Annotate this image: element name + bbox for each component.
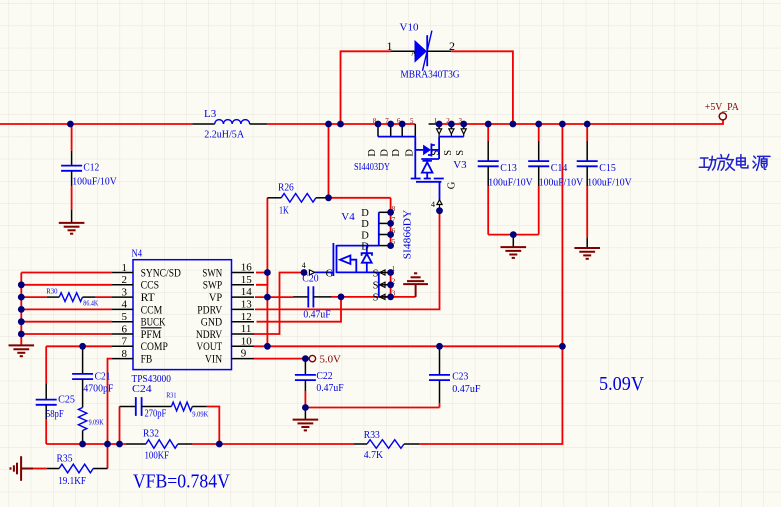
svg-text:C13: C13	[500, 162, 517, 174]
wire: FB pin8 row	[108, 359, 113, 444]
wire: R26 node to V4 drain bus	[329, 197, 391, 199]
capacitor C15 100uF/10V	[577, 124, 632, 188]
svg-text:VIN: VIN	[205, 354, 223, 366]
svg-text:S: S	[455, 150, 466, 156]
wire: C22/C23 ground tie	[305, 403, 439, 407]
svg-text:S: S	[373, 281, 379, 292]
svg-text:12: 12	[241, 311, 252, 323]
resistor 9.09K (below C21)	[78, 408, 103, 445]
svg-text:9.09K: 9.09K	[89, 419, 104, 427]
svg-text:2: 2	[449, 39, 455, 53]
svg-text:D: D	[361, 230, 369, 241]
wire: V4 drain bus (red)	[390, 198, 392, 246]
wire: C13/C14 ground tie	[488, 234, 539, 236]
wire: C13 lower lead wire	[487, 186, 489, 234]
capacitor C13 100uF/10V	[478, 124, 533, 188]
junction dot C22 ground node	[302, 404, 309, 411]
svg-text:G: G	[447, 181, 458, 189]
wire: PDRV pin13 to V3 gate	[255, 211, 440, 310]
diode V10 MBRA340T3G	[387, 22, 460, 81]
svg-text:G: G	[326, 268, 334, 279]
wire: SWN pin16 to vertical	[256, 272, 267, 274]
svg-text:V3: V3	[453, 159, 467, 171]
svg-text:V10: V10	[400, 22, 419, 34]
svg-text:NDRV: NDRV	[196, 329, 223, 341]
wire: compensation bottom rail	[46, 419, 126, 444]
junction dot COMP/C21	[79, 343, 86, 350]
svg-text:0.47uF: 0.47uF	[303, 309, 330, 321]
svg-text:4: 4	[122, 299, 128, 311]
wire: SWP pin15 jog	[256, 273, 267, 285]
svg-text:S: S	[373, 293, 379, 304]
svg-text:4: 4	[302, 261, 306, 270]
svg-text:SWP: SWP	[203, 280, 223, 292]
label: 5.09V	[599, 373, 644, 395]
ground (below C15)	[574, 238, 600, 259]
resistor R32 100KF	[126, 427, 193, 461]
ground (below C13/C14)	[501, 231, 527, 258]
svg-text:8: 8	[122, 348, 128, 360]
wire: R35 to FB node	[33, 444, 108, 469]
wire: C12 to rail and ground	[71, 124, 73, 210]
svg-text:BUCK: BUCK	[141, 317, 166, 329]
wire: R32 right link	[192, 443, 219, 445]
capacitor C25 58pF	[36, 383, 76, 420]
svg-text:VOUT: VOUT	[197, 341, 223, 353]
svg-text:VP: VP	[209, 292, 222, 304]
junction dot R26/rail-drop node	[325, 194, 332, 201]
wire: C15 lower lead wire	[586, 186, 588, 237]
label: amplifier power (Chinese)	[699, 154, 770, 170]
svg-text:C12: C12	[83, 162, 99, 174]
svg-text:CCM: CCM	[141, 304, 163, 316]
junction dots on +5V rail	[67, 121, 591, 128]
junction dot C20 right	[338, 294, 345, 301]
junction dots V4 drain bus	[387, 209, 394, 249]
svg-text:GND: GND	[201, 317, 222, 329]
wire: COMP pin7 row	[46, 345, 112, 347]
svg-text:C24: C24	[132, 383, 152, 395]
wire: NDRV pin11 to V4 gate	[254, 273, 304, 335]
svg-text:0.47uF: 0.47uF	[452, 383, 480, 395]
junction dots VOUT row	[436, 343, 566, 350]
junction dots V4 source bus	[387, 269, 394, 300]
svg-text:+5V_PA: +5V_PA	[705, 101, 739, 113]
resistor R35 19.1KF	[47, 453, 108, 487]
wire: C24/R31 branch	[120, 407, 220, 445]
svg-text:100KF: 100KF	[145, 450, 170, 462]
junction dot VIN/C22	[302, 355, 309, 362]
capacitor C23 0.47uF	[429, 346, 481, 403]
svg-text:6: 6	[122, 323, 128, 335]
wire: C20 right to V4 source pins and ground	[332, 296, 416, 298]
svg-text:V4: V4	[341, 211, 355, 223]
svg-text:RT: RT	[141, 292, 155, 304]
capacitor C14 100uF/10V	[528, 124, 583, 188]
svg-text:11: 11	[241, 323, 252, 335]
svg-text:15: 15	[241, 274, 253, 286]
wire: left pin bus rows 1-6	[20, 273, 22, 346]
svg-text:14: 14	[241, 286, 253, 298]
svg-text:C23: C23	[452, 371, 469, 383]
wire: output rail (V3 source pins to +5V_PA terminal)	[429, 120, 723, 124]
svg-text:S: S	[373, 268, 379, 279]
svg-text:2: 2	[122, 274, 128, 286]
svg-text:C22: C22	[316, 370, 332, 382]
svg-text:9.09K: 9.09K	[192, 411, 208, 419]
capacitor C22 0.47uF	[295, 359, 344, 394]
svg-text:C15: C15	[599, 162, 616, 174]
svg-text:C14: C14	[551, 162, 568, 174]
svg-text:2.2uH/5A: 2.2uH/5A	[204, 128, 244, 140]
svg-text:C21: C21	[95, 370, 111, 382]
svg-text:5: 5	[122, 311, 128, 323]
svg-text:D: D	[361, 208, 369, 219]
wire: V4 source bus (red)	[390, 273, 392, 297]
wire: VIN pin9 to 5.0V terminal	[254, 358, 309, 360]
svg-text:R30: R30	[46, 288, 58, 296]
svg-text:100uF/10V: 100uF/10V	[539, 176, 584, 188]
ground (left of R35)	[11, 456, 34, 481]
IC N4 TPS43000	[112, 248, 254, 386]
svg-text:4.7K: 4.7K	[364, 449, 383, 461]
wire: pin1 row	[21, 272, 112, 274]
wire: output rail to VOUT node vertical	[561, 124, 563, 346]
svg-text:58pF: 58pF	[46, 408, 64, 420]
svg-text:R35: R35	[57, 453, 73, 465]
capacitor C24 270pF	[120, 383, 172, 420]
wire: pin5 row	[21, 321, 112, 323]
transistor V3 SI4403DY	[354, 117, 467, 211]
wire: VOUT pin10 to output node	[254, 345, 562, 347]
wire: COMP to C25 branch	[45, 346, 47, 383]
svg-text:FB: FB	[141, 354, 153, 366]
svg-text:S: S	[443, 150, 454, 156]
inductor L3 2.2uH/5A	[192, 108, 267, 140]
svg-text:SWN: SWN	[202, 267, 222, 279]
svg-text:L3: L3	[204, 108, 217, 120]
svg-text:A: A	[411, 50, 416, 58]
svg-text:100uF/10V: 100uF/10V	[72, 175, 117, 187]
wire: V10 diode left leg	[341, 51, 391, 124]
svg-text:D: D	[361, 241, 369, 252]
svg-text:1: 1	[122, 262, 128, 274]
junction dots SWN/VP/VOUT vertical	[264, 269, 271, 350]
svg-text:R32: R32	[143, 427, 159, 439]
svg-text:R33: R33	[364, 429, 380, 441]
svg-text:0.47uF: 0.47uF	[316, 382, 343, 394]
transistor V4 SI4866DY	[302, 205, 414, 304]
ground (inverted, at V4 source)	[403, 273, 428, 297]
svg-text:D: D	[391, 149, 402, 157]
svg-text:9: 9	[241, 348, 247, 360]
svg-text:4700pF: 4700pF	[83, 383, 113, 395]
capacitor C20 0.47uF	[293, 272, 332, 320]
junction dots on left pin bus	[18, 281, 25, 337]
svg-text:86.4K: 86.4K	[83, 300, 98, 308]
svg-text:CCS: CCS	[141, 280, 160, 292]
svg-text:100uF/10V: 100uF/10V	[587, 176, 632, 188]
svg-text:S: S	[431, 150, 442, 156]
junction dot V4 gate	[301, 269, 308, 276]
svg-text:4: 4	[431, 200, 435, 209]
svg-text:5: 5	[410, 117, 414, 125]
junction dot V3 gate	[436, 207, 443, 214]
power port 5.0V	[309, 353, 341, 365]
power port +5V_PA	[705, 101, 739, 120]
svg-text:5.09V: 5.09V	[599, 373, 644, 395]
svg-text:1: 1	[387, 39, 393, 53]
label: VFB=0.784V	[133, 471, 230, 493]
svg-text:MBRA340T3G: MBRA340T3G	[400, 69, 459, 81]
junction dots feedback rail	[79, 441, 223, 448]
svg-text:D: D	[404, 149, 415, 157]
wire: +5V input rail (left net, from left edge through L3 to V3 drain pins)	[0, 123, 415, 125]
svg-text:19.1KF: 19.1KF	[58, 475, 86, 487]
svg-text:SYNC/SD: SYNC/SD	[141, 267, 181, 279]
wire: R26 left to SWN/VP/VOUT vertical	[266, 198, 268, 346]
svg-text:7: 7	[122, 336, 128, 348]
wire: C14 lower lead wire	[538, 186, 540, 234]
capacitor C12 100uF/10V	[61, 151, 117, 188]
ground (below C12)	[59, 210, 85, 234]
wire: pin4 row	[21, 308, 112, 310]
resistor R31 9.09K	[166, 392, 208, 419]
wire: rail to R26	[328, 124, 330, 198]
wire: GND pin12 to V4 source node	[257, 297, 342, 322]
wire: feedback rail to R33	[219, 443, 354, 445]
resistor R33 4.7K	[354, 429, 419, 461]
wire: pin3 row segments (R30)	[21, 296, 112, 298]
svg-text:16: 16	[241, 262, 253, 274]
svg-text:R26: R26	[278, 182, 294, 194]
ground (below C22)	[293, 408, 319, 431]
svg-text:10: 10	[241, 335, 253, 347]
wire: pin6 row	[21, 333, 112, 335]
svg-text:3: 3	[122, 286, 128, 298]
capacitor C21 4700pF	[72, 346, 113, 407]
svg-text:PFM: PFM	[141, 329, 162, 341]
svg-text:13: 13	[241, 299, 253, 311]
ground (left pin bus)	[9, 345, 35, 356]
svg-text:5.0V: 5.0V	[320, 353, 341, 365]
svg-text:D: D	[367, 149, 378, 157]
wire: VP pin14 to C20	[255, 296, 293, 298]
svg-text:270pF: 270pF	[145, 408, 167, 420]
resistor R30 86.4K	[46, 288, 98, 308]
svg-text:D: D	[361, 219, 369, 230]
svg-text:SI4403DY: SI4403DY	[354, 161, 390, 173]
svg-text:R31: R31	[166, 392, 177, 400]
svg-text:D: D	[380, 149, 391, 157]
wire: R33 right to output node	[419, 346, 562, 444]
svg-text:SI4866DY: SI4866DY	[402, 210, 414, 259]
svg-text:PDRV: PDRV	[197, 304, 222, 316]
svg-text:C25: C25	[58, 394, 75, 406]
svg-text:1K: 1K	[279, 204, 289, 216]
wire: V10 diode right leg	[451, 51, 513, 124]
svg-text:100uF/10V: 100uF/10V	[488, 176, 533, 188]
wire: pin2 row	[21, 284, 112, 286]
resistor R26 1K	[267, 182, 328, 217]
svg-text:N4: N4	[132, 248, 143, 260]
svg-text:VFB=0.784V: VFB=0.784V	[133, 471, 230, 493]
wire: C22 top lead wire	[304, 391, 306, 408]
svg-text:COMP: COMP	[141, 341, 168, 353]
